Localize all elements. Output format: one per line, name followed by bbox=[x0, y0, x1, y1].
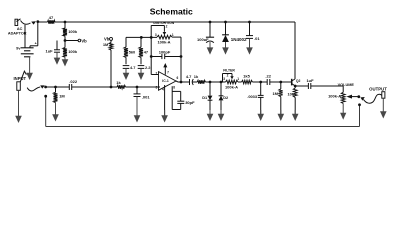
svg-text:1M: 1M bbox=[59, 93, 65, 98]
connector J2 input jack bbox=[14, 71, 27, 90]
svg-text:2: 2 bbox=[156, 72, 158, 76]
potentiometer VR1 DISTORTION 100k-A bbox=[151, 21, 181, 45]
ground (leg2) bbox=[138, 68, 145, 80]
capacitor .0033 bbox=[247, 82, 263, 115]
wire battery drop (switch side) bbox=[24, 25, 26, 48]
ground (1M input) bbox=[52, 103, 59, 122]
svg-text:Vb: Vb bbox=[104, 37, 110, 42]
resistor 47 (rail) bbox=[48, 15, 56, 24]
svg-text:.0033: .0033 bbox=[247, 94, 258, 99]
wire V+ rail bbox=[55, 21, 295, 23]
terminal Vb (bias) bbox=[104, 37, 113, 42]
capacitor 2.2 (leg2) bbox=[138, 57, 152, 70]
svg-text:2: 2 bbox=[166, 24, 168, 28]
ground (pin 4) bbox=[161, 110, 168, 123]
ground (D1) bbox=[207, 110, 214, 121]
capacitor .01 (rail) bbox=[246, 22, 260, 41]
node rail/100uF bbox=[209, 21, 212, 24]
svg-text:4: 4 bbox=[162, 88, 164, 92]
capacitor 1uF (Vb bypass) bbox=[45, 41, 60, 54]
svg-text:.01: .01 bbox=[254, 36, 260, 41]
svg-text:AC: AC bbox=[17, 27, 23, 31]
wire battery feed from rail node bbox=[30, 22, 38, 48]
svg-text:1M: 1M bbox=[272, 91, 277, 96]
node fb/100pF right bbox=[180, 55, 183, 58]
terminal Vb bbox=[78, 38, 87, 43]
wire collector from rail bbox=[294, 22, 296, 79]
node out/fb bbox=[180, 81, 183, 84]
svg-text:.022: .022 bbox=[69, 79, 78, 84]
svg-text:100k: 100k bbox=[68, 49, 78, 54]
svg-text:D2: D2 bbox=[223, 95, 229, 100]
svg-text:3: 3 bbox=[155, 33, 157, 37]
ground (100k lower) bbox=[62, 57, 69, 66]
svg-text:30pF: 30pF bbox=[185, 100, 195, 105]
svg-text:.22: .22 bbox=[265, 73, 271, 78]
node rail/.01 bbox=[248, 21, 251, 24]
ground (input jack sleeve) bbox=[15, 90, 22, 123]
node .001 bbox=[136, 86, 139, 89]
diode D2 bbox=[219, 82, 229, 115]
capacitor 4.7 (out, polarized) bbox=[186, 74, 197, 85]
svg-text:DISTORTION: DISTORTION bbox=[153, 21, 174, 25]
svg-text:Vb: Vb bbox=[81, 38, 87, 43]
svg-text:47: 47 bbox=[49, 15, 54, 20]
svg-text:1k: 1k bbox=[116, 80, 121, 85]
node D1 bbox=[209, 81, 212, 84]
svg-text:7: 7 bbox=[167, 70, 169, 74]
svg-text:1uF: 1uF bbox=[45, 49, 53, 54]
svg-text:1M: 1M bbox=[103, 42, 109, 47]
resistor R 1k (series) bbox=[116, 80, 125, 89]
svg-text:9v: 9v bbox=[16, 46, 21, 51]
resistor R 1M (input) bbox=[54, 87, 66, 103]
node .0033 bbox=[259, 81, 262, 84]
svg-text:100k-A: 100k-A bbox=[225, 84, 238, 89]
resistor R 10k bbox=[288, 86, 298, 115]
node bus left bbox=[44, 95, 47, 98]
wire bypass bus bbox=[46, 97, 360, 126]
wire emitter line bbox=[295, 85, 308, 87]
node emitter bbox=[294, 85, 297, 88]
node Vb bbox=[64, 39, 67, 42]
potentiometer VR3 VOLUME 100k-A bbox=[328, 83, 359, 104]
resistor R 560 bbox=[124, 47, 135, 57]
svg-text:3: 3 bbox=[156, 85, 158, 89]
wire feedback vertical bbox=[151, 26, 158, 75]
svg-text:Schematic: Schematic bbox=[150, 6, 193, 16]
diode D3 1N4002 (rail) bbox=[222, 22, 247, 42]
svg-text:.001: .001 bbox=[142, 94, 151, 99]
ground (volume) bbox=[340, 104, 346, 120]
wire main line c bbox=[126, 86, 161, 88]
connector J1 AC adaptor jack bbox=[8, 19, 27, 35]
svg-text:47: 47 bbox=[144, 49, 148, 54]
svg-text:8: 8 bbox=[173, 86, 175, 90]
wire main line b bbox=[72, 86, 117, 88]
ground (10k) bbox=[292, 110, 299, 121]
resistor R 47 bbox=[139, 47, 148, 57]
node rail/100k bbox=[64, 21, 67, 24]
svg-text:3: 3 bbox=[223, 77, 225, 81]
wire legs line bbox=[126, 37, 157, 47]
wire op-amp out bbox=[176, 81, 190, 82]
resistor R 1k (out) bbox=[194, 74, 206, 84]
ground (battery) bbox=[26, 57, 33, 80]
capacitor .001 bbox=[134, 87, 151, 99]
capacitor 4.7 (leg1) bbox=[123, 57, 136, 70]
resistor R 1M (mid) bbox=[272, 82, 282, 115]
ground (1uF) bbox=[54, 52, 61, 65]
capacitor 100uF (rail, polarized) bbox=[197, 22, 214, 43]
wire fb right side bbox=[180, 37, 182, 82]
node input bbox=[44, 86, 47, 89]
svg-text:1: 1 bbox=[172, 33, 174, 37]
svg-text:INPUT: INPUT bbox=[14, 76, 27, 81]
svg-text:100k: 100k bbox=[68, 29, 78, 34]
svg-text:Q2: Q2 bbox=[296, 79, 301, 83]
pin 4 ground line bbox=[162, 85, 165, 116]
svg-text:1N4002: 1N4002 bbox=[231, 37, 247, 42]
title bbox=[150, 6, 193, 16]
svg-text:10k: 10k bbox=[288, 92, 295, 97]
node 1M input bbox=[54, 86, 57, 89]
wire to volume bbox=[311, 86, 343, 92]
ground (D2) bbox=[218, 110, 225, 121]
capacitor 100pF (feedback) bbox=[151, 50, 181, 60]
svg-text:100uF: 100uF bbox=[197, 37, 209, 42]
capacitor .22 bbox=[265, 73, 271, 85]
node bias bbox=[110, 86, 113, 89]
ground (1N4002) bbox=[222, 42, 229, 55]
ground (.01) bbox=[246, 38, 253, 54]
svg-text:4.7: 4.7 bbox=[130, 65, 135, 70]
resistor R 1M (bias) bbox=[103, 40, 113, 87]
capacitor .022 (input) bbox=[69, 79, 78, 90]
ground (1M mid) bbox=[278, 110, 285, 121]
ground (output jack sleeve) bbox=[380, 98, 387, 118]
connector J3 output jack bbox=[369, 87, 387, 99]
resistor R 1k5 bbox=[242, 74, 253, 84]
node legs/47 bbox=[140, 36, 143, 39]
svg-text:4.7: 4.7 bbox=[186, 74, 192, 79]
node volume wiper bbox=[357, 95, 360, 98]
diode D1 bbox=[202, 82, 212, 115]
svg-text:+: + bbox=[35, 42, 37, 46]
svg-text:2.2: 2.2 bbox=[145, 65, 151, 70]
node rail/1N4002 bbox=[224, 21, 227, 24]
wire Vb node bbox=[65, 40, 78, 42]
wire main line g bbox=[270, 81, 292, 83]
wire V+ rail left bbox=[38, 21, 48, 23]
svg-text:100pF: 100pF bbox=[159, 50, 171, 55]
svg-text:100k-A: 100k-A bbox=[328, 93, 341, 98]
ground (.0033) bbox=[257, 110, 264, 121]
svg-text:1k: 1k bbox=[194, 74, 199, 79]
wire main line f bbox=[253, 81, 268, 83]
wire main line a bbox=[46, 86, 70, 88]
node D2 bbox=[220, 81, 223, 84]
svg-text:FILTER: FILTER bbox=[223, 69, 235, 73]
svg-text:ADAPTOR: ADAPTOR bbox=[8, 31, 27, 35]
node fb/100pF left bbox=[150, 55, 153, 58]
transistor Q2 bbox=[292, 79, 301, 86]
battery BT1 9v bbox=[16, 46, 33, 57]
svg-text:100k-A: 100k-A bbox=[157, 39, 170, 44]
pin 7 V+ arrow bbox=[163, 63, 169, 75]
switch SW input (bypass) with arrow bbox=[27, 85, 45, 91]
op-amp IC-1 (triangle) bbox=[156, 72, 179, 91]
svg-text:6: 6 bbox=[177, 76, 179, 80]
potentiometer VR2 FILTER 100k-A bbox=[223, 69, 240, 90]
resistor R 100k lower bbox=[63, 41, 78, 58]
ground (leg1) bbox=[123, 68, 130, 80]
svg-text:D1: D1 bbox=[202, 95, 208, 100]
switch SW (adaptor/battery) with arrow to V+ rail bbox=[16, 19, 36, 25]
node V+ rail start bbox=[36, 20, 39, 23]
svg-text:1uF: 1uF bbox=[306, 78, 314, 83]
capacitor 1uF (output) bbox=[306, 78, 314, 89]
switch SW output (bypass) with arrow bbox=[360, 94, 381, 103]
ground (.001) bbox=[134, 97, 141, 123]
svg-text:IC-1: IC-1 bbox=[162, 79, 169, 83]
node legs/fb bbox=[150, 36, 153, 39]
resistor R 100k upper bbox=[63, 22, 78, 41]
node 1M mid bbox=[279, 81, 282, 84]
svg-text:VOLUME: VOLUME bbox=[338, 83, 355, 87]
wire main line e bbox=[238, 81, 242, 83]
pin 8 + 30pF comp loop bbox=[172, 86, 195, 110]
node bus right bbox=[358, 103, 361, 106]
svg-text:560: 560 bbox=[129, 49, 136, 54]
svg-text:OUTPUT: OUTPUT bbox=[369, 87, 387, 92]
wire main line d bbox=[205, 81, 225, 83]
svg-text:1k5: 1k5 bbox=[243, 74, 250, 79]
ground (100uF) bbox=[207, 42, 214, 55]
